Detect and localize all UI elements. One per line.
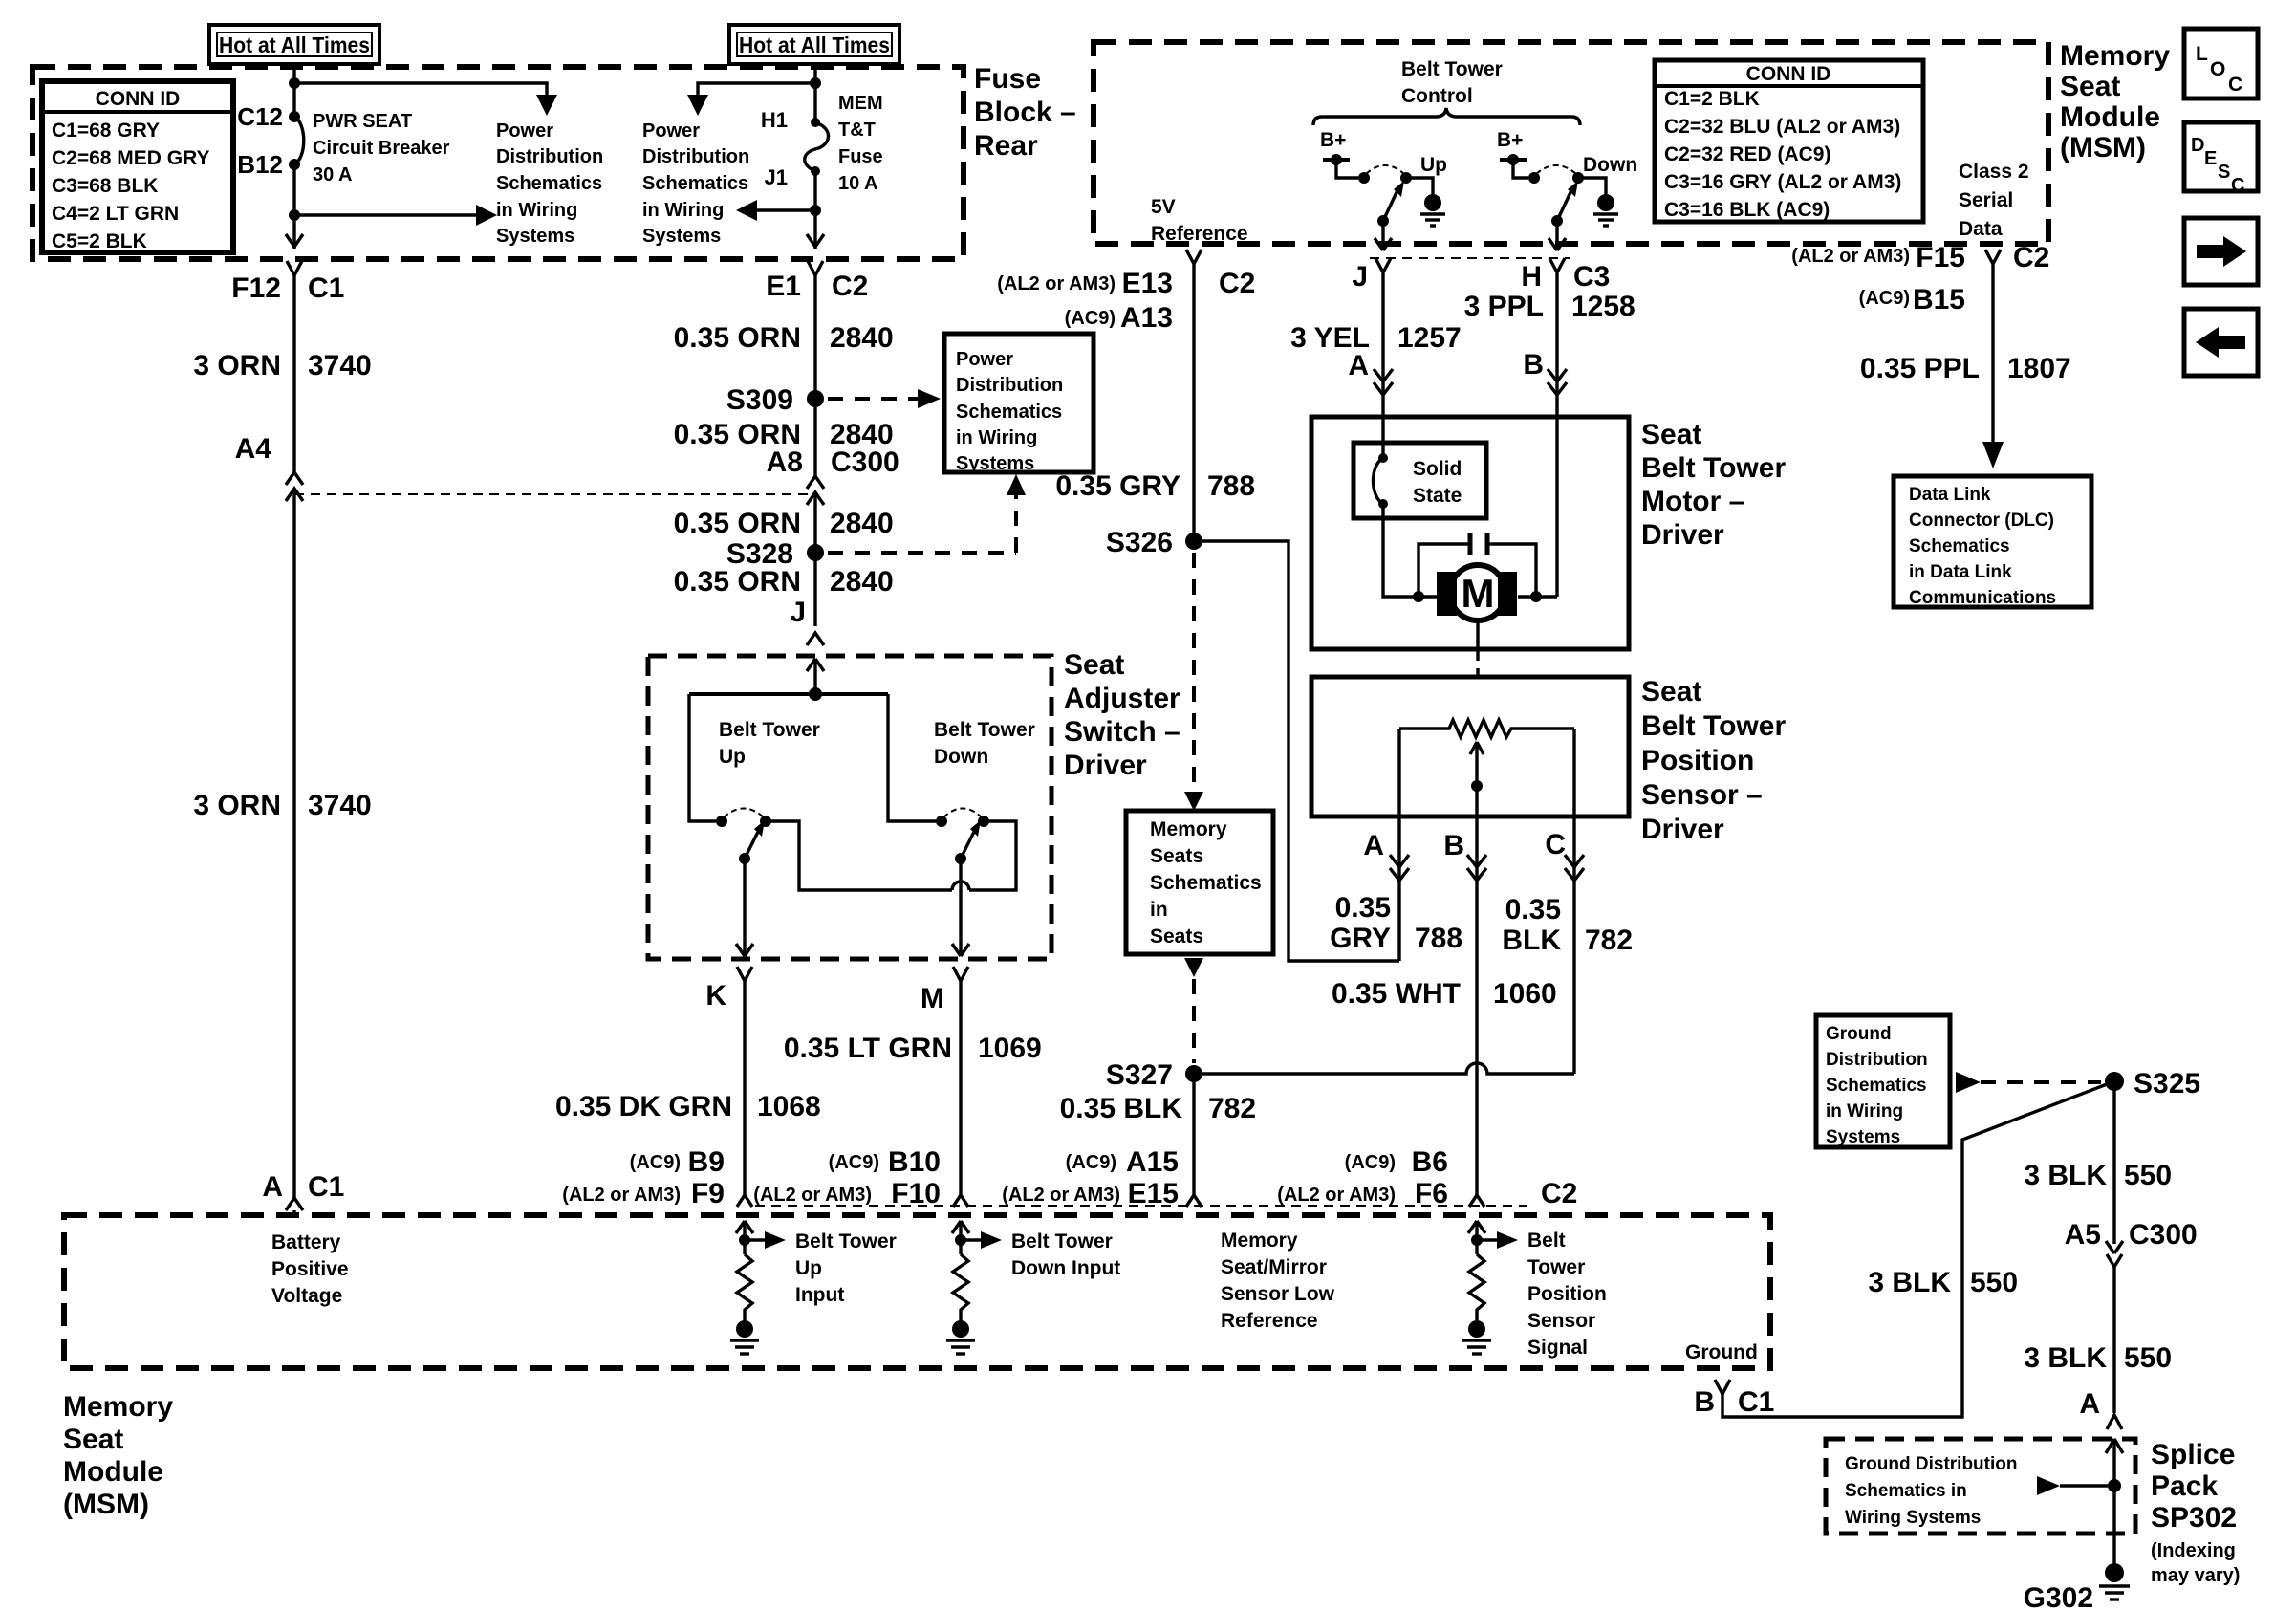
svg-text:in Data Link: in Data Link: [1909, 562, 2012, 582]
switch Down pivot node: [1551, 215, 1563, 227]
pin label (AC9) A15: [1066, 1146, 1179, 1178]
svg-text:550: 550: [2124, 1160, 2172, 1191]
pin label (AC9) B15: [1859, 284, 1965, 316]
branch to power distribution arrow: [698, 83, 815, 95]
arrow to splice wire: [2037, 1476, 2121, 1495]
svg-text:Seats: Seats: [1150, 925, 1203, 947]
text Power Distribution Schematics (left block): [496, 120, 603, 247]
splice S326: [1185, 533, 1202, 550]
pin label A5 / C300: [2065, 1219, 2198, 1251]
arrow into switch box at J: [807, 659, 824, 694]
svg-text:B: B: [1694, 1386, 1715, 1418]
svg-text:Circuit Breaker: Circuit Breaker: [313, 138, 450, 159]
svg-text:M: M: [921, 983, 944, 1014]
svg-text:H1: H1: [761, 108, 788, 132]
Seat Adjuster Switch dashed box: [648, 656, 1051, 959]
Solid State box: [1354, 443, 1486, 518]
svg-text:(MSM): (MSM): [63, 1489, 149, 1520]
svg-text:B+: B+: [1320, 129, 1346, 151]
splice S328: [807, 544, 824, 561]
svg-text:(AL2 or AM3): (AL2 or AM3): [753, 1185, 872, 1206]
svg-text:Seats: Seats: [1150, 845, 1203, 867]
dashed ref arrow to S325: [1956, 1072, 2101, 1093]
svg-text:Power: Power: [496, 120, 553, 142]
switch Up pivot node: [1377, 215, 1389, 227]
svg-text:in: in: [1150, 899, 1168, 921]
arrow to label Belt Tower Position Sensor Signal: [1477, 1231, 1518, 1249]
svg-text:C2=32 BLU (AL2 or AM3): C2=32 BLU (AL2 or AM3): [1664, 116, 1900, 138]
connector chevrons on sensor A wire: [1390, 855, 1409, 881]
ground (Up switch): [1420, 194, 1445, 226]
svg-text:Belt Tower: Belt Tower: [934, 719, 1035, 741]
svg-text:Schematics: Schematics: [1826, 1076, 1927, 1096]
svg-text:Connector (DLC): Connector (DLC): [1909, 511, 2054, 531]
connector Y at E1/C2: [808, 261, 823, 476]
svg-text:MEM: MEM: [838, 93, 883, 114]
svg-text:F9: F9: [691, 1178, 725, 1209]
wire label 0.35 ORN 2840 (3): [674, 508, 894, 539]
svg-text:(AC9): (AC9): [829, 1152, 879, 1173]
svg-text:(AC9): (AC9): [1859, 288, 1910, 309]
svg-text:Belt Tower: Belt Tower: [1641, 710, 1786, 742]
svg-text:Distribution: Distribution: [642, 146, 749, 167]
svg-text:0.35 BLK: 0.35 BLK: [1060, 1093, 1183, 1124]
svg-text:788: 788: [1207, 470, 1255, 502]
svg-text:State: State: [1413, 485, 1462, 507]
svg-text:Up: Up: [1420, 154, 1447, 176]
svg-text:C2: C2: [832, 271, 868, 302]
svg-text:3 BLK: 3 BLK: [1868, 1267, 1951, 1298]
svg-text:Sensor: Sensor: [1527, 1310, 1595, 1332]
svg-text:Voltage: Voltage: [271, 1285, 342, 1307]
svg-text:Communications: Communications: [1909, 588, 2056, 608]
svg-text:Seat: Seat: [2060, 71, 2120, 102]
svg-text:3740: 3740: [308, 350, 372, 381]
B+ terminal (Down): [1497, 129, 1528, 178]
svg-text:Battery: Battery: [271, 1231, 341, 1253]
CONN ID table (left): [42, 81, 233, 252]
connector Y at H: [1549, 258, 1565, 597]
junction node B10: [955, 1234, 966, 1246]
label Class 2 Serial Data: [1959, 161, 2029, 240]
svg-text:S: S: [2218, 162, 2230, 183]
potentiometer wiper: [1470, 742, 1484, 816]
resistor B9: [737, 1254, 752, 1320]
svg-text:0.35 PPL: 0.35 PPL: [1860, 353, 1980, 384]
svg-text:A: A: [1348, 350, 1369, 381]
svg-text:A8: A8: [767, 446, 803, 478]
dashed ref arrow from S309: [828, 389, 941, 408]
svg-text:2840: 2840: [830, 566, 894, 598]
junction node: [289, 77, 300, 89]
svg-text:A15: A15: [1126, 1146, 1179, 1178]
svg-text:(AL2 or AM3): (AL2 or AM3): [1277, 1185, 1396, 1206]
junction node: [810, 77, 821, 89]
wire label 0.35 GRY 788 (sensor A): [1330, 892, 1462, 954]
svg-text:F6: F6: [1415, 1178, 1448, 1209]
label Belt Tower Down: [934, 719, 1035, 768]
svg-text:Adjuster: Adjuster: [1064, 683, 1180, 714]
svg-text:550: 550: [1970, 1267, 2018, 1298]
svg-text:5V: 5V: [1151, 196, 1176, 218]
svg-text:30 A: 30 A: [313, 164, 353, 185]
svg-text:(AC9): (AC9): [1065, 308, 1116, 329]
svg-text:Seat: Seat: [63, 1424, 123, 1455]
arrow at box edge K: [736, 944, 753, 956]
svg-text:0.35 ORN: 0.35 ORN: [674, 566, 801, 598]
switch Belt Tower Down: arm with arrow: [961, 820, 981, 859]
Memory Seat Module dashed box: [1094, 42, 2048, 244]
dashed wire S326 down: [1184, 553, 1203, 811]
svg-text:(AC9): (AC9): [1066, 1152, 1116, 1173]
solid state switch contacts: [1374, 453, 1389, 509]
wire label 3 ORN 3740 lower: [193, 790, 371, 821]
svg-text:(AC9): (AC9): [1345, 1152, 1396, 1173]
svg-text:Seat: Seat: [1641, 676, 1701, 708]
svg-text:C300: C300: [2129, 1219, 2198, 1251]
svg-text:Switch –: Switch –: [1064, 716, 1180, 748]
wire fuse feed top: [813, 67, 816, 122]
dashed connector line C2 (bottom row): [755, 1205, 1527, 1207]
wire crossover right side: [969, 821, 1016, 890]
switch Belt Tower Up: fixed contact: [716, 816, 727, 827]
svg-text:Belt Tower: Belt Tower: [1011, 1230, 1113, 1252]
svg-text:Schematics: Schematics: [1909, 536, 2010, 556]
svg-text:Schematics in: Schematics in: [1845, 1481, 1967, 1501]
svg-text:Wiring Systems: Wiring Systems: [1845, 1508, 1981, 1528]
svg-text:Module: Module: [63, 1456, 163, 1488]
svg-text:in Wiring: in Wiring: [496, 200, 577, 221]
switch Up throw arc: [1366, 165, 1404, 174]
svg-text:(AL2 or AM3): (AL2 or AM3): [562, 1185, 681, 1206]
junction node left motor terminal: [1413, 591, 1424, 602]
label Belt Tower Control: [1401, 58, 1503, 107]
svg-text:L: L: [2196, 43, 2208, 65]
svg-text:Belt: Belt: [1527, 1230, 1566, 1252]
splice S309: [807, 390, 824, 407]
connector chevrons on A wire: [1374, 369, 1393, 395]
ground (Down switch): [1593, 194, 1618, 226]
svg-text:(AC9): (AC9): [630, 1152, 681, 1173]
circuit breaker PWR SEAT 30A: [289, 111, 304, 170]
connector Y at J into switch: [807, 633, 824, 645]
wire Down contact to ground: [1578, 178, 1606, 194]
svg-text:(AL2 or AM3): (AL2 or AM3): [1002, 1185, 1120, 1206]
wire fuse to box bottom: [813, 171, 816, 249]
switch Up arm: [1383, 181, 1404, 221]
svg-text:C4=2 LT GRN: C4=2 LT GRN: [52, 203, 179, 225]
wire label 0.35 BLK 782 (sensor C): [1502, 894, 1633, 956]
junction node: [289, 209, 300, 221]
svg-text:(AL2 or AM3): (AL2 or AM3): [997, 273, 1116, 294]
connector Y at K: [737, 967, 752, 1195]
wire label 3 ORN 3740: [193, 350, 371, 381]
svg-text:Schematics: Schematics: [496, 173, 602, 194]
ground G302: [2099, 1563, 2130, 1600]
pin label (AC9) B10: [829, 1146, 941, 1178]
splice S327: [1185, 1065, 1202, 1082]
label Memory Seat/Mirror Sensor Low Reference: [1221, 1230, 1335, 1332]
svg-text:Data: Data: [1959, 218, 2003, 240]
svg-text:C2=68 MED GRY: C2=68 MED GRY: [52, 147, 210, 169]
svg-text:A4: A4: [235, 433, 272, 465]
arrow down to schematic ref: [536, 95, 557, 116]
junction node on bus: [809, 687, 822, 701]
svg-text:D: D: [2191, 135, 2204, 156]
dashed connector line C300: [294, 493, 815, 495]
Data Link Connector box: [1894, 476, 2091, 608]
svg-text:0.35 GRY: 0.35 GRY: [1055, 470, 1180, 502]
switch Belt Tower Up: moving contact: [760, 816, 771, 827]
label 5V Reference: [1151, 196, 1248, 245]
ground B9: [730, 1320, 759, 1354]
svg-text:A5: A5: [2065, 1219, 2101, 1251]
svg-text:Systems: Systems: [642, 226, 721, 247]
pin label (AL2 or AM3) E15: [1002, 1178, 1179, 1209]
svg-text:G302: G302: [2024, 1582, 2093, 1611]
switch Down fixed contact: [1528, 172, 1540, 184]
wire Up contact to ground: [1406, 178, 1433, 194]
svg-text:Serial: Serial: [1959, 189, 2013, 211]
svg-text:J1: J1: [765, 165, 788, 189]
switch Belt Tower Down: throw arc: [943, 809, 982, 818]
svg-text:Distribution: Distribution: [496, 146, 603, 167]
svg-text:Position: Position: [1641, 745, 1754, 776]
brace under Belt Tower Control: [1313, 108, 1580, 125]
potentiometer right leg (C): [1572, 729, 1575, 1074]
label box "Hot at All Times" (left): [209, 25, 379, 64]
svg-text:0.35 WHT: 0.35 WHT: [1332, 978, 1461, 1010]
arrow to label Belt Tower Up Input: [745, 1231, 786, 1249]
svg-text:782: 782: [1208, 1093, 1256, 1124]
svg-text:S327: S327: [1106, 1059, 1173, 1091]
Memory Seats Schematics box: [1126, 811, 1273, 954]
svg-text:CONN ID: CONN ID: [1746, 63, 1831, 85]
svg-text:Seat/Mirror: Seat/Mirror: [1221, 1256, 1327, 1278]
wire bus right leg: [888, 694, 936, 821]
junction node B6: [1471, 1234, 1483, 1246]
potentiometer left leg (A): [1397, 729, 1400, 961]
svg-text:E: E: [2204, 148, 2217, 169]
svg-text:3 BLK: 3 BLK: [2024, 1160, 2107, 1191]
resistor B10: [953, 1254, 968, 1320]
arrow at MSM edge H: [1549, 238, 1566, 250]
svg-text:Input: Input: [795, 1284, 844, 1306]
connector Y at F12/C1: [287, 261, 302, 472]
icon box LOC: [2184, 29, 2258, 98]
svg-text:3 BLK: 3 BLK: [2024, 1342, 2107, 1374]
svg-text:0.35: 0.35: [1505, 894, 1561, 925]
wire right motor terminal: [1518, 595, 1557, 598]
wire J output inside MSM: [1381, 221, 1384, 250]
wire branch arrow to schematic ref: [294, 213, 476, 216]
svg-text:Belt Tower: Belt Tower: [719, 719, 820, 741]
svg-text:3 ORN: 3 ORN: [193, 790, 281, 821]
arrow at MSM edge J: [1375, 238, 1392, 250]
switch Up fixed contact: [1358, 172, 1370, 184]
connector at F9: [737, 1195, 752, 1207]
wire label 3 BLK 550 (ground run): [1868, 1267, 2018, 1298]
svg-text:CONN ID: CONN ID: [96, 88, 181, 110]
svg-text:0.35 ORN: 0.35 ORN: [674, 322, 801, 354]
connector Y at A/C1 into MSM: [286, 1198, 303, 1215]
pin label (AL2 or AM3) F10: [753, 1178, 941, 1209]
title Memory Seat Module (MSM): [2060, 40, 2170, 163]
wire Up output to K: [743, 859, 746, 956]
svg-text:B6: B6: [1412, 1146, 1448, 1178]
wire S327 to C output with hop over B: [1194, 1063, 1574, 1074]
label Ground Distribution Schematics in Wiring Systems: [1845, 1454, 2017, 1528]
svg-text:C1=2 BLK: C1=2 BLK: [1664, 88, 1760, 110]
junction node B9: [739, 1234, 750, 1246]
wire label 0.35 WHT 1060 (sensor B): [1332, 978, 1557, 1010]
switch Down throw arc: [1536, 165, 1576, 174]
wire S325 down: [2112, 1081, 2115, 1244]
svg-text:Ground: Ground: [1685, 1341, 1758, 1363]
connector chevrons on B wire: [1548, 369, 1567, 395]
svg-text:A13: A13: [1120, 302, 1173, 334]
pin label (AC9) B6: [1345, 1146, 1448, 1178]
Splice Pack dashed box: [1826, 1439, 2135, 1534]
title Memory Seat Module (MSM) bottom: [63, 1391, 173, 1520]
svg-text:Power: Power: [956, 349, 1013, 370]
svg-text:Positive: Positive: [271, 1258, 349, 1280]
svg-text:2840: 2840: [830, 508, 894, 539]
svg-text:Ground: Ground: [1826, 1024, 1892, 1044]
ground B10: [946, 1320, 975, 1354]
svg-text:B15: B15: [1913, 284, 1965, 316]
svg-text:Power: Power: [642, 120, 700, 142]
wire label 0.35 GRY 788: [1055, 470, 1255, 502]
pin label (AL2 or AM3) F6: [1277, 1178, 1448, 1209]
svg-text:3740: 3740: [308, 790, 372, 821]
svg-text:E1: E1: [766, 271, 801, 302]
svg-text:Down Input: Down Input: [1011, 1257, 1120, 1279]
dashed wire below Memory Seats box: [1184, 958, 1203, 1063]
svg-text:10 A: 10 A: [838, 173, 878, 194]
svg-text:Block –: Block –: [974, 97, 1076, 128]
title Seat Adjuster Switch - Driver: [1064, 649, 1180, 781]
svg-text:B+: B+: [1497, 129, 1523, 151]
pin label (AL2 or AM3) F15 / C2: [1791, 242, 2049, 273]
Fuse Block - Rear dashed box: [32, 67, 964, 259]
svg-text:Down: Down: [1583, 154, 1637, 176]
svg-text:1068: 1068: [757, 1091, 821, 1122]
svg-text:Schematics: Schematics: [1150, 872, 1262, 894]
svg-text:550: 550: [2124, 1342, 2172, 1374]
svg-text:Position: Position: [1527, 1283, 1607, 1305]
connector chevrons on sensor C wire: [1565, 855, 1584, 881]
icon box arrow left: [2184, 309, 2258, 376]
connector at F10: [953, 1195, 968, 1207]
svg-text:M: M: [1462, 571, 1495, 616]
wire label 3 PPL 1258: [1464, 291, 1635, 322]
svg-text:Systems: Systems: [1826, 1127, 1900, 1147]
label Battery Positive Voltage: [271, 1231, 349, 1307]
svg-text:3 ORN: 3 ORN: [193, 350, 281, 381]
title "Fuse Block - Rear": [974, 63, 1076, 162]
svg-text:C300: C300: [831, 446, 899, 478]
wire bus left leg: [689, 694, 716, 821]
pin label (AC9) A13: [1065, 302, 1173, 334]
svg-text:Module: Module: [2060, 101, 2160, 133]
svg-text:Sensor –: Sensor –: [1641, 779, 1763, 811]
svg-text:S326: S326: [1106, 527, 1173, 558]
junction node: [810, 205, 821, 216]
svg-text:C2=32 RED (AC9): C2=32 RED (AC9): [1664, 143, 1830, 165]
svg-text:(Indexing: (Indexing: [2151, 1540, 2236, 1561]
svg-text:Reference: Reference: [1151, 223, 1248, 245]
pin label (AC9) B9: [630, 1146, 725, 1178]
svg-text:C: C: [2231, 175, 2244, 196]
label box "Hot at All Times" (right): [729, 25, 899, 64]
splice S325: [2105, 1072, 2124, 1091]
svg-text:Belt Tower: Belt Tower: [1641, 452, 1786, 484]
pin label (AL2 or AM3) F9: [562, 1178, 725, 1209]
svg-text:C1: C1: [1738, 1386, 1774, 1418]
svg-text:Motor –: Motor –: [1641, 486, 1744, 517]
svg-text:Belt Tower: Belt Tower: [1401, 58, 1503, 80]
wire branch to power distribution arrow: [294, 83, 547, 95]
svg-text:C: C: [1545, 829, 1566, 860]
switch Up moving contact: [1400, 172, 1412, 184]
wire Down output to M: [959, 859, 962, 956]
connector Y at M: [953, 967, 968, 1195]
svg-text:B: B: [1523, 349, 1544, 381]
dashed link motor to sensor: [1476, 649, 1479, 677]
wire B output: [1475, 816, 1478, 1195]
svg-text:0.35: 0.35: [1335, 892, 1391, 924]
wire label 3 YEL 1257: [1290, 322, 1462, 354]
CONN ID table (right): [1655, 60, 1923, 222]
svg-text:Systems: Systems: [496, 226, 574, 247]
svg-text:F12: F12: [231, 272, 281, 304]
svg-text:J: J: [1352, 261, 1368, 293]
svg-text:C2: C2: [1219, 268, 1255, 299]
svg-text:C3: C3: [1573, 261, 1610, 293]
wire label 0.35 PPL 1807: [1860, 353, 2071, 384]
svg-text:0.35 DK GRN: 0.35 DK GRN: [555, 1091, 732, 1122]
svg-text:Pack: Pack: [2151, 1470, 2218, 1502]
label Belt Tower Up Input: [795, 1230, 897, 1306]
svg-text:B9: B9: [688, 1146, 725, 1178]
svg-text:Driver: Driver: [1641, 814, 1724, 845]
svg-text:S309: S309: [726, 384, 793, 416]
wire motor bottom stub: [1476, 620, 1479, 649]
wire battery feed top: [292, 67, 295, 117]
svg-text:Down: Down: [934, 746, 988, 768]
svg-text:in Wiring: in Wiring: [642, 200, 724, 221]
arrow at box edge M: [952, 944, 969, 956]
connector Y at B/C1 ground pin: [1715, 1081, 2114, 1417]
wire label 0.35 ORN 2840 (1): [674, 322, 894, 354]
connector C300 at A5: [2106, 1241, 2123, 1413]
wire label 3 BLK 550 (lower): [2024, 1342, 2172, 1374]
svg-text:A: A: [1363, 830, 1384, 861]
svg-text:C1: C1: [308, 1171, 344, 1203]
wire label 0.35 ORN 2840 (4): [674, 566, 894, 598]
svg-text:PWR SEAT: PWR SEAT: [313, 111, 412, 132]
svg-text:F10: F10: [891, 1178, 941, 1209]
svg-text:Tower: Tower: [1527, 1256, 1585, 1278]
arrow to label Belt Tower Down Input: [961, 1231, 1002, 1249]
svg-text:Driver: Driver: [1064, 750, 1147, 781]
svg-text:Splice: Splice: [2151, 1439, 2235, 1470]
svg-text:Rear: Rear: [974, 130, 1038, 162]
svg-text:1258: 1258: [1571, 291, 1635, 322]
svg-text:Control: Control: [1401, 85, 1473, 107]
switch Belt Tower Down: fixed contact: [936, 816, 947, 827]
